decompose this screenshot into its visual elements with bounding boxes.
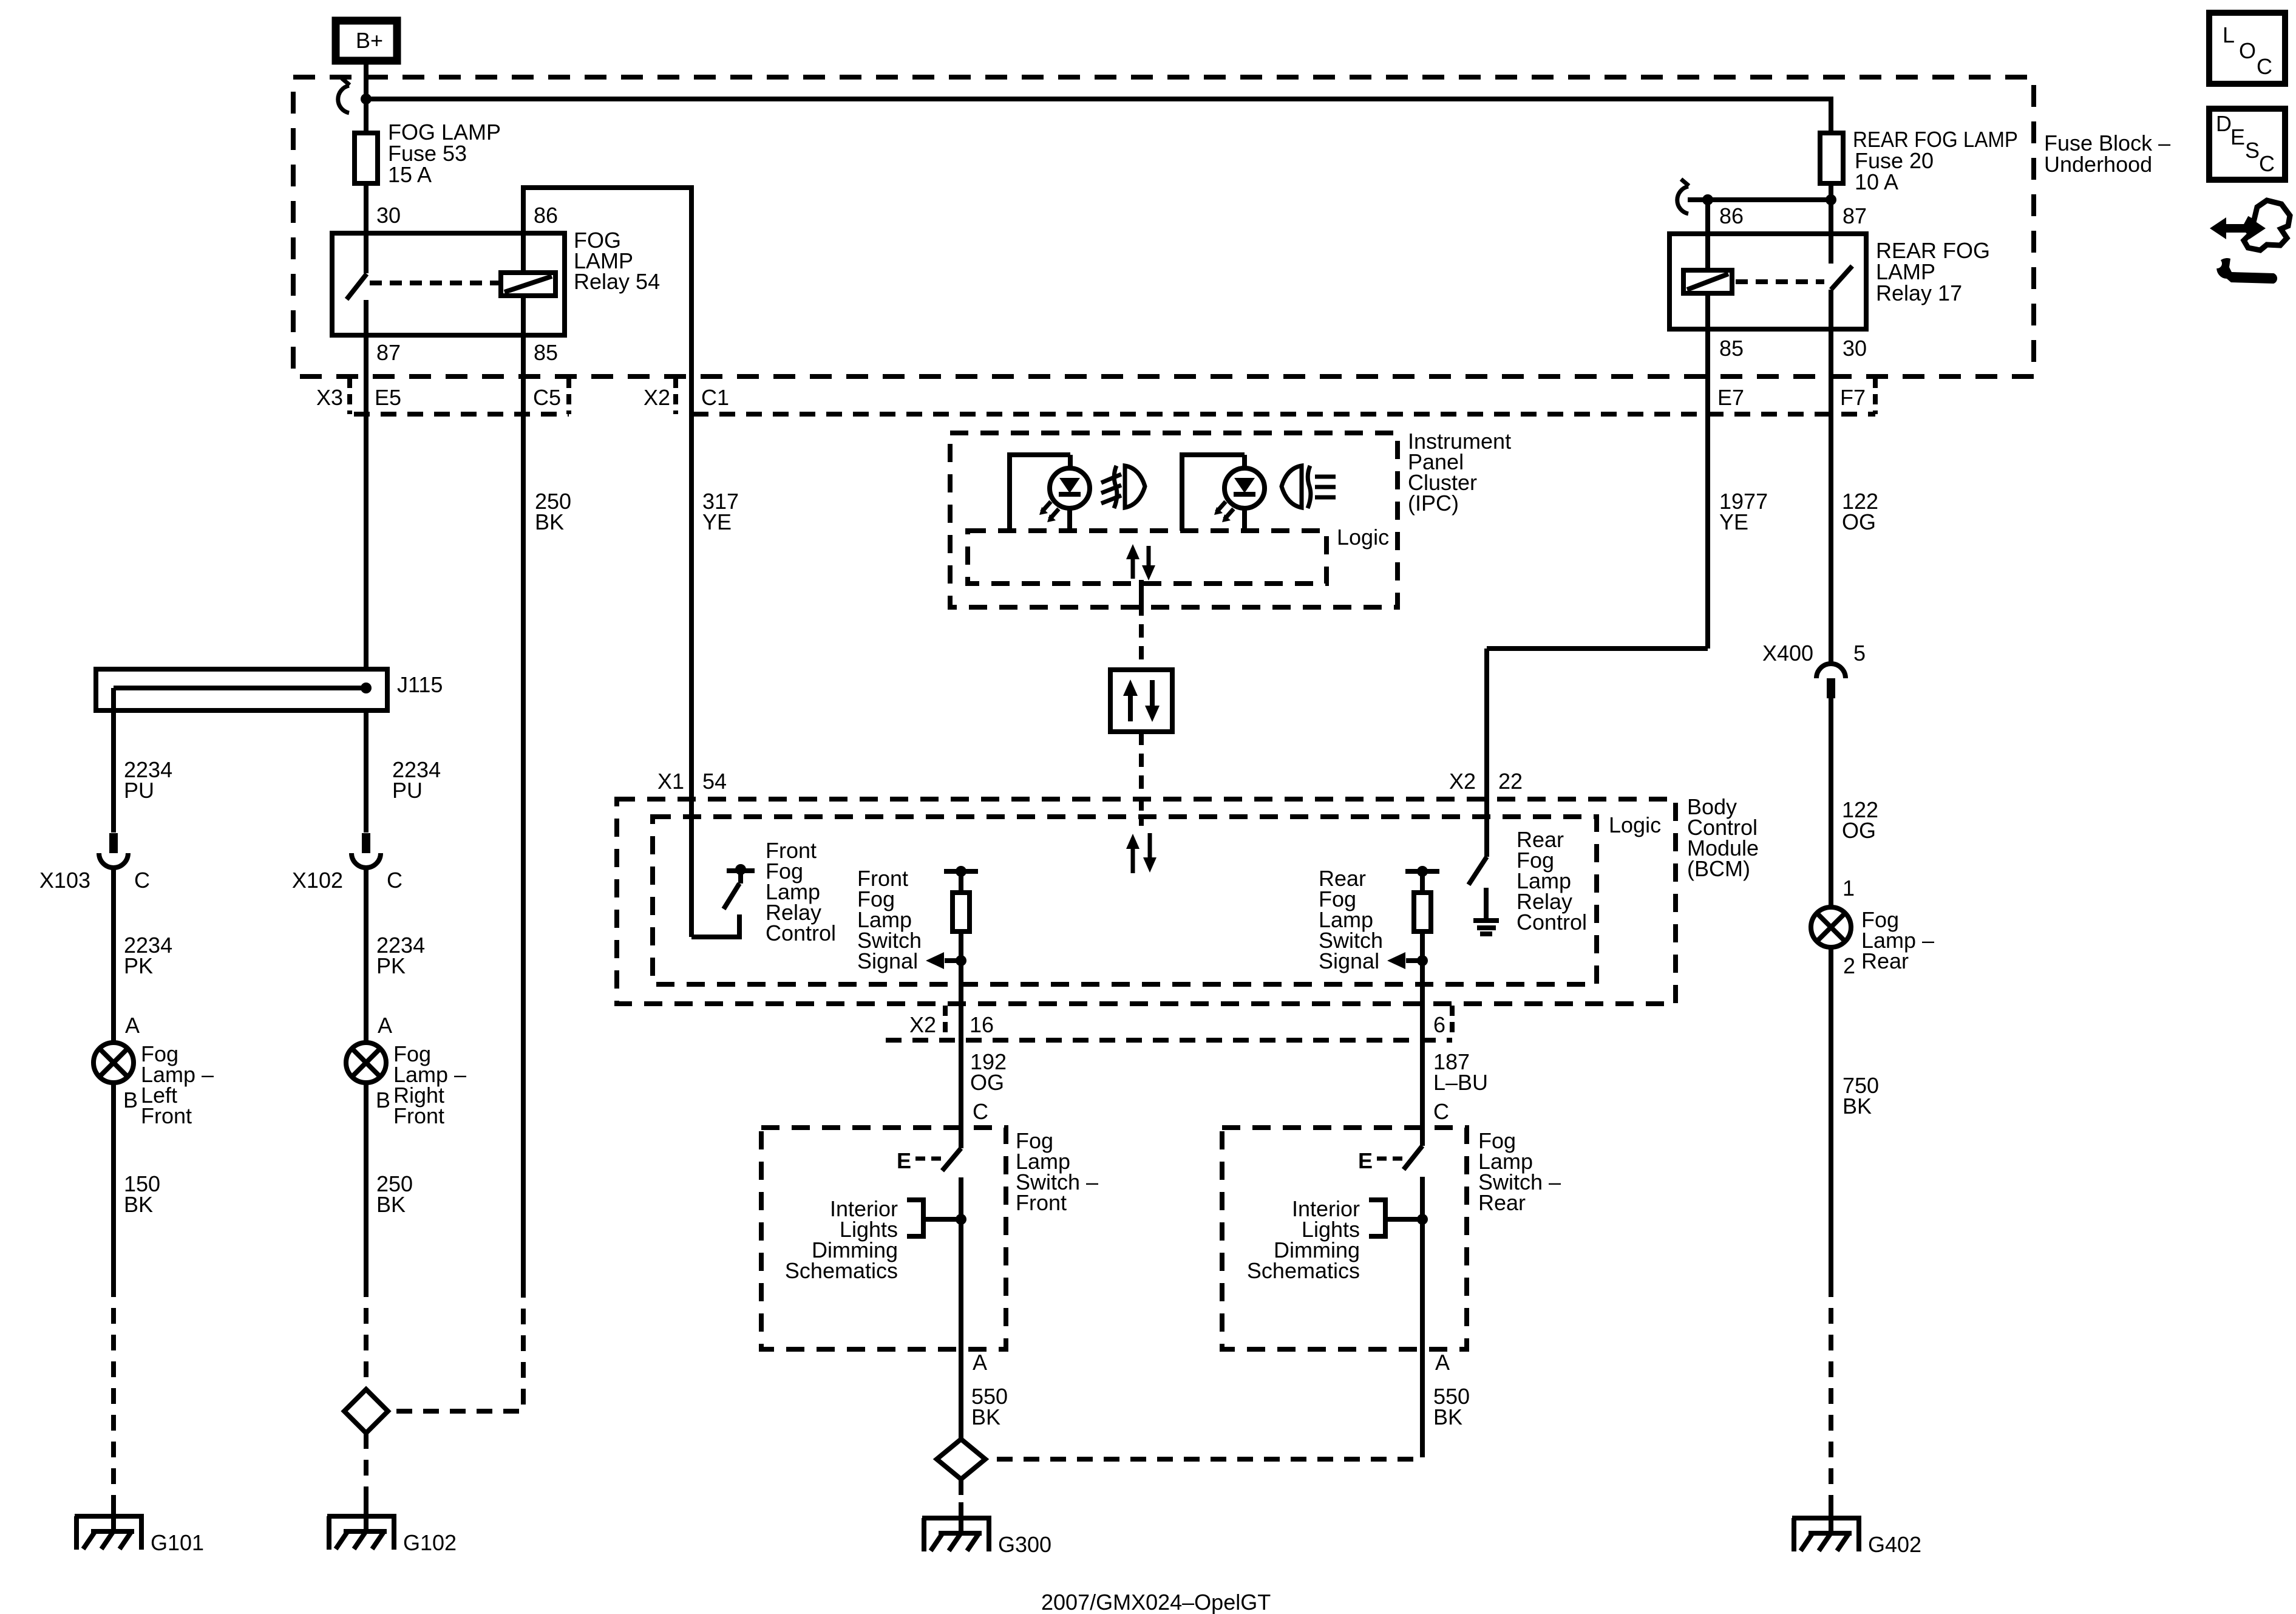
relay control dashed link — [1736, 279, 1824, 284]
svg-text:30: 30 — [376, 203, 401, 228]
svg-text:C: C — [1433, 1099, 1449, 1124]
LED indicator rear fog — [1214, 455, 1265, 531]
splice pack J115 — [96, 669, 443, 710]
wire relay17 coil86 up — [1705, 200, 1710, 273]
wire rear switch ground run — [1420, 1346, 1425, 1442]
svg-text:Schematics: Schematics — [1247, 1258, 1360, 1283]
wire coil86 up and over to C1 column — [523, 188, 691, 799]
wire relay54 sw87 down to E5 — [364, 335, 369, 669]
svg-text:Control: Control — [1517, 910, 1587, 935]
front fog lamp switch signal input — [857, 866, 978, 1148]
wire label 2234 PU left — [124, 757, 441, 803]
svg-text:S: S — [2245, 138, 2260, 163]
svg-text:Relay 54: Relay 54 — [574, 269, 660, 294]
connector row X2 16 / 6 below BCM — [886, 1038, 1452, 1043]
svg-text:Schematics: Schematics — [785, 1258, 898, 1283]
svg-text:C5: C5 — [533, 385, 561, 410]
relay switch blade — [1829, 200, 1833, 264]
node fuse20 out — [1826, 194, 1836, 205]
svg-text:Front: Front — [141, 1103, 192, 1128]
wire fuse20 to junction rail — [1829, 183, 1833, 200]
relay coil — [501, 273, 555, 296]
svg-text:X1: X1 — [657, 769, 684, 794]
lamp fog rear — [1811, 907, 1934, 978]
svg-text:A: A — [378, 1013, 392, 1038]
svg-text:X2: X2 — [644, 385, 670, 410]
clip attachment left — [338, 78, 350, 113]
relay control dashed link — [370, 281, 500, 285]
svg-text:Rear: Rear — [1478, 1190, 1526, 1215]
svg-text:(BCM): (BCM) — [1687, 856, 1750, 881]
LED indicator front fog — [1039, 455, 1090, 531]
svg-text:E7: E7 — [1717, 385, 1744, 410]
wire serial data box to BCM dashed — [1139, 732, 1144, 826]
icon front fog lamp — [1101, 466, 1145, 508]
relay switch blade — [364, 233, 369, 273]
wire coil85 down to C5 — [521, 296, 526, 1282]
svg-text:A: A — [973, 1350, 987, 1375]
legend LOC box — [2209, 13, 2285, 84]
wire J115 right leg down — [364, 710, 369, 833]
fog lamp switch rear dashed box — [1222, 1128, 1467, 1349]
svg-text:F7: F7 — [1840, 385, 1866, 410]
connector separator C5 — [566, 378, 571, 414]
svg-text:Underhood: Underhood — [2044, 152, 2152, 177]
svg-text:C: C — [134, 868, 150, 893]
svg-text:G402: G402 — [1868, 1532, 1921, 1557]
wire J115 left leg down — [111, 688, 116, 833]
svg-text:C1: C1 — [701, 385, 729, 410]
svg-text:5: 5 — [1853, 641, 1866, 666]
ground G102 — [327, 1516, 457, 1555]
wire rail to relay17 coil and switch — [1688, 197, 1831, 202]
ground G300 — [922, 1518, 1051, 1557]
svg-text:Logic: Logic — [1609, 812, 1661, 837]
svg-text:X3: X3 — [316, 385, 343, 410]
svg-text:YE: YE — [702, 509, 732, 534]
svg-text:X2: X2 — [1449, 769, 1476, 794]
connector separator X2|C1 — [673, 378, 678, 414]
lamp fog left front — [93, 1041, 214, 1128]
wire relay17 sw30 down to F7 — [1829, 329, 1833, 664]
svg-text:O: O — [2239, 38, 2256, 63]
svg-text:1: 1 — [1843, 876, 1855, 901]
svg-text:C: C — [387, 868, 402, 893]
svg-text:Rear: Rear — [1861, 948, 1909, 973]
rear fog relay control switch — [1469, 649, 1587, 935]
wire E7 down and over to BCM X2 — [1487, 646, 1708, 651]
svg-text:BK: BK — [535, 509, 564, 534]
svg-text:OG: OG — [970, 1070, 1004, 1095]
svg-text:E: E — [1358, 1148, 1373, 1173]
switch front: E terminal and blade — [897, 1148, 961, 1349]
legend diagnostic icon — [2210, 200, 2290, 284]
serial data arrows in BCM — [1126, 833, 1156, 873]
double arrow — [2210, 217, 2266, 239]
wire serial IPC to data box dashed — [1139, 580, 1144, 602]
svg-text:BK: BK — [1843, 1094, 1872, 1119]
svg-text:OG: OG — [1842, 818, 1876, 843]
BCM logic dashed box — [653, 817, 1597, 984]
svg-text:BK: BK — [971, 1405, 1000, 1429]
svg-text:B+: B+ — [356, 28, 383, 53]
svg-text:D: D — [2216, 111, 2232, 136]
svg-text:PU: PU — [392, 778, 423, 803]
svg-text:6: 6 — [1433, 1012, 1445, 1037]
connector X102 — [292, 833, 402, 893]
wire dashed splice to G102 — [364, 1433, 369, 1499]
fuse F53 FOG LAMP Fuse 53 15A — [355, 133, 378, 183]
svg-text:X103: X103 — [39, 868, 90, 893]
svg-text:A: A — [125, 1013, 140, 1038]
svg-text:G102: G102 — [403, 1530, 457, 1555]
svg-text:PK: PK — [376, 953, 406, 978]
wire dashed splice to G300 — [959, 1479, 963, 1502]
fog lamp switch front dashed box — [761, 1128, 1006, 1349]
svg-text:C: C — [2257, 54, 2272, 79]
svg-text:X400: X400 — [1762, 641, 1813, 666]
svg-text:B: B — [376, 1088, 390, 1112]
svg-text:2: 2 — [1843, 953, 1855, 978]
svg-text:YE: YE — [1719, 509, 1748, 534]
wire B+ down to rail — [364, 64, 369, 133]
relay coil — [1683, 270, 1732, 293]
wire relay17 coil85 down to E7 — [1705, 293, 1710, 649]
relay K17 REAR FOG LAMP Relay 17 — [1669, 200, 1990, 361]
wire X400 to rear lamp — [1829, 698, 1833, 907]
svg-text:A: A — [1435, 1350, 1450, 1375]
wire fuse53 to relay 30 — [364, 183, 369, 233]
svg-text:C: C — [2259, 151, 2275, 176]
wire below left lamp 150 BK — [111, 1083, 116, 1281]
indicator housing front fog — [1010, 455, 1070, 531]
svg-text:G300: G300 — [998, 1532, 1051, 1557]
svg-text:87: 87 — [1843, 203, 1867, 228]
svg-text:L: L — [2223, 22, 2235, 47]
svg-text:BK: BK — [1433, 1405, 1462, 1429]
wire dashed left lamp to G101 — [111, 1281, 116, 1499]
svg-text:85: 85 — [534, 340, 558, 365]
wrench — [2216, 258, 2277, 284]
indicator housing rear fog — [1182, 455, 1245, 531]
connector separator X3|E5 — [347, 378, 352, 414]
wire label 2234 PK left — [124, 933, 425, 1038]
connector separator F7 — [1873, 378, 1878, 414]
svg-text:Front: Front — [393, 1103, 444, 1128]
wire dashed C5 branch to splice — [392, 1282, 523, 1411]
svg-text:Control: Control — [766, 921, 836, 945]
wire X102 to lamp — [364, 868, 369, 1043]
svg-text:BK: BK — [124, 1192, 153, 1217]
svg-text:16: 16 — [970, 1012, 994, 1037]
resistor — [953, 893, 970, 931]
svg-text:J115: J115 — [397, 672, 443, 697]
svg-text:Relay 17: Relay 17 — [1876, 281, 1962, 305]
svg-text:Signal: Signal — [857, 948, 918, 973]
rear fog lamp switch signal input — [1319, 866, 1439, 1146]
legend DESC box — [2209, 109, 2285, 180]
node coil feed — [1702, 194, 1713, 205]
svg-text:86: 86 — [1719, 203, 1744, 228]
emission arrows — [1217, 502, 1226, 512]
svg-text:22: 22 — [1498, 769, 1523, 794]
svg-text:2007/GMX024–OpelGT: 2007/GMX024–OpelGT — [1041, 1590, 1271, 1614]
ground internal — [1473, 888, 1499, 934]
pointer outline — [2244, 200, 2290, 250]
svg-text:C: C — [973, 1099, 988, 1124]
svg-text:Logic: Logic — [1337, 525, 1389, 550]
connector band bottom right segment (C1..F7) — [693, 412, 1875, 417]
svg-text:G101: G101 — [151, 1530, 204, 1555]
front fog relay control switch — [691, 799, 836, 945]
relay K54 FOG LAMP Relay 54 — [332, 203, 660, 365]
IPC logic dashed box — [968, 531, 1326, 584]
connector band bottom left segment (E5/C5 box) — [354, 412, 569, 417]
interior lights dimming bracket rear — [1247, 1196, 1428, 1283]
svg-text:10 A: 10 A — [1855, 169, 1898, 194]
switch rear: E terminal and blade — [1358, 1146, 1422, 1346]
svg-text:Signal: Signal — [1319, 948, 1379, 973]
svg-text:L–BU: L–BU — [1433, 1070, 1488, 1095]
battery feed B+ — [336, 21, 397, 61]
wire dashed rear lamp to G402 — [1829, 1281, 1833, 1500]
connector X103 — [39, 833, 150, 893]
wire below right lamp — [364, 1083, 369, 1281]
serial data arrows in IPC logic — [1126, 544, 1155, 581]
icon rear fog lamp — [1282, 466, 1336, 508]
connector X400 pin 5 — [1762, 641, 1866, 698]
svg-text:OG: OG — [1842, 509, 1876, 534]
body control module BCM dashed box — [617, 799, 1676, 1004]
svg-text:15 A: 15 A — [388, 162, 432, 187]
wire top rail B+ to fuse 20 — [366, 99, 1831, 133]
fuse block underhood dashed box — [293, 77, 2034, 376]
wire dashed to splice — [364, 1281, 369, 1389]
wire front switch to splice G300 — [959, 1349, 963, 1438]
fuse F20 REAR FOG LAMP Fuse 20 10A — [1820, 133, 1843, 183]
svg-text:87: 87 — [376, 340, 401, 365]
svg-text:X2: X2 — [909, 1012, 936, 1037]
svg-text:(IPC): (IPC) — [1408, 491, 1459, 516]
svg-text:86: 86 — [534, 203, 558, 228]
serial data symbol box — [1110, 670, 1172, 732]
wire below rear lamp 750 BK — [1829, 947, 1833, 1281]
wire X103 to lamp — [111, 868, 116, 1043]
emission arrows — [1042, 502, 1051, 512]
ground G402 — [1792, 1518, 1921, 1557]
svg-text:E: E — [2230, 124, 2245, 149]
svg-text:85: 85 — [1719, 336, 1744, 361]
node rail junction — [361, 94, 372, 104]
svg-text:PK: PK — [124, 953, 153, 978]
svg-text:E: E — [897, 1148, 911, 1173]
interior lights dimming bracket front — [785, 1196, 966, 1283]
instrument panel cluster IPC dashed box — [950, 433, 1398, 607]
wire dashed rear to splice — [988, 1442, 1422, 1459]
clip attachment right — [1677, 179, 1689, 214]
svg-text:PU: PU — [124, 778, 154, 803]
svg-text:54: 54 — [702, 769, 727, 794]
svg-text:BK: BK — [376, 1192, 406, 1217]
svg-text:X102: X102 — [292, 868, 343, 893]
splice diamond G300 — [937, 1439, 985, 1479]
svg-text:Front: Front — [1016, 1190, 1067, 1215]
resistor — [1414, 893, 1431, 931]
svg-text:30: 30 — [1843, 336, 1867, 361]
svg-text:E5: E5 — [375, 385, 401, 410]
svg-text:B: B — [123, 1088, 138, 1112]
ground G101 — [75, 1516, 204, 1555]
lamp fog right front — [346, 1041, 466, 1128]
splice diamond to G102 — [344, 1389, 388, 1433]
